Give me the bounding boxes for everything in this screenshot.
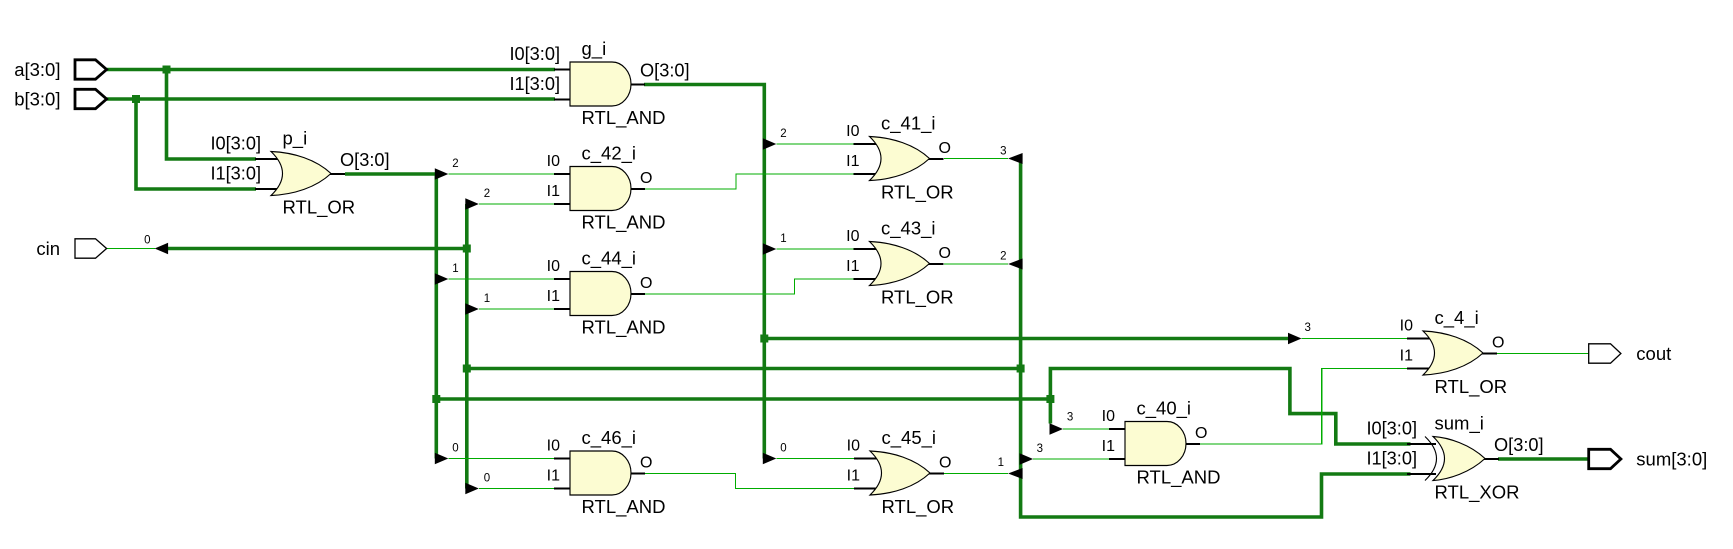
svg-text:O[3:0]: O[3:0] (340, 150, 390, 170)
svg-text:2: 2 (484, 188, 490, 200)
svg-text:I0: I0 (547, 153, 560, 170)
svg-text:I1[3:0]: I1[3:0] (210, 164, 261, 184)
svg-text:2: 2 (780, 128, 786, 140)
svg-text:I1: I1 (547, 183, 560, 200)
svg-text:O: O (939, 245, 951, 262)
svg-text:O: O (1195, 425, 1207, 442)
svg-text:0: 0 (484, 473, 490, 485)
svg-text:I1[3:0]: I1[3:0] (509, 74, 560, 94)
svg-text:O: O (640, 455, 652, 472)
svg-text:I1: I1 (846, 153, 859, 170)
svg-text:RTL_AND: RTL_AND (582, 212, 666, 234)
svg-text:O: O (939, 455, 951, 472)
svg-text:RTL_OR: RTL_OR (881, 182, 954, 204)
svg-text:RTL_OR: RTL_OR (283, 197, 356, 219)
svg-text:I1: I1 (847, 468, 860, 485)
svg-text:O[3:0]: O[3:0] (640, 61, 690, 81)
svg-text:I0: I0 (1102, 408, 1115, 425)
svg-text:b[3:0]: b[3:0] (14, 89, 60, 110)
svg-text:RTL_OR: RTL_OR (1435, 376, 1508, 398)
svg-text:0: 0 (780, 443, 786, 455)
svg-text:a[3:0]: a[3:0] (14, 59, 60, 80)
svg-text:I1[3:0]: I1[3:0] (1366, 449, 1417, 469)
svg-text:c_45_i: c_45_i (882, 427, 937, 449)
svg-text:I1: I1 (1400, 348, 1413, 365)
svg-text:c_42_i: c_42_i (582, 143, 637, 165)
svg-text:0: 0 (452, 443, 458, 455)
svg-text:c_41_i: c_41_i (881, 113, 936, 135)
svg-text:I0: I0 (1400, 318, 1413, 335)
svg-text:RTL_XOR: RTL_XOR (1435, 482, 1520, 504)
svg-text:cin: cin (36, 238, 60, 259)
svg-text:I0: I0 (846, 228, 859, 245)
svg-text:O: O (640, 275, 652, 292)
svg-text:I1: I1 (547, 288, 560, 305)
svg-text:2: 2 (1000, 251, 1006, 263)
svg-text:O: O (1492, 335, 1504, 352)
svg-text:RTL_AND: RTL_AND (582, 317, 666, 339)
svg-text:I0[3:0]: I0[3:0] (210, 134, 261, 154)
svg-text:sum_i: sum_i (1435, 413, 1484, 435)
svg-text:O: O (939, 140, 951, 157)
svg-text:I0: I0 (846, 123, 859, 140)
svg-text:RTL_OR: RTL_OR (882, 496, 955, 518)
svg-text:I0[3:0]: I0[3:0] (1366, 419, 1417, 439)
svg-text:3: 3 (1305, 322, 1311, 334)
svg-text:c_43_i: c_43_i (881, 218, 936, 240)
svg-text:RTL_AND: RTL_AND (582, 107, 666, 129)
svg-text:2: 2 (452, 158, 458, 170)
svg-text:0: 0 (144, 235, 150, 247)
svg-text:3: 3 (1037, 443, 1043, 455)
svg-text:RTL_AND: RTL_AND (582, 496, 666, 518)
svg-text:1: 1 (780, 233, 786, 245)
svg-text:I1: I1 (846, 258, 859, 275)
svg-text:3: 3 (1000, 146, 1006, 158)
svg-text:cout: cout (1636, 343, 1671, 364)
svg-text:O[3:0]: O[3:0] (1494, 435, 1544, 455)
svg-text:c_46_i: c_46_i (582, 427, 637, 449)
svg-text:3: 3 (1067, 412, 1073, 424)
svg-text:RTL_AND: RTL_AND (1137, 467, 1221, 489)
svg-text:g_i: g_i (582, 38, 607, 60)
svg-text:c_4_i: c_4_i (1435, 307, 1479, 329)
svg-text:c_40_i: c_40_i (1137, 398, 1192, 420)
svg-text:O: O (640, 170, 652, 187)
svg-text:I0: I0 (847, 438, 860, 455)
svg-text:c_44_i: c_44_i (582, 248, 637, 270)
svg-text:1: 1 (452, 263, 458, 275)
svg-text:I1: I1 (547, 468, 560, 485)
svg-text:sum[3:0]: sum[3:0] (1636, 449, 1707, 470)
svg-text:p_i: p_i (283, 128, 308, 150)
svg-text:1: 1 (998, 457, 1004, 469)
svg-text:I0: I0 (547, 438, 560, 455)
svg-text:I1: I1 (1102, 438, 1115, 455)
svg-text:I0[3:0]: I0[3:0] (509, 44, 560, 64)
svg-text:1: 1 (484, 293, 490, 305)
svg-text:RTL_OR: RTL_OR (881, 287, 954, 309)
svg-text:I0: I0 (547, 258, 560, 275)
